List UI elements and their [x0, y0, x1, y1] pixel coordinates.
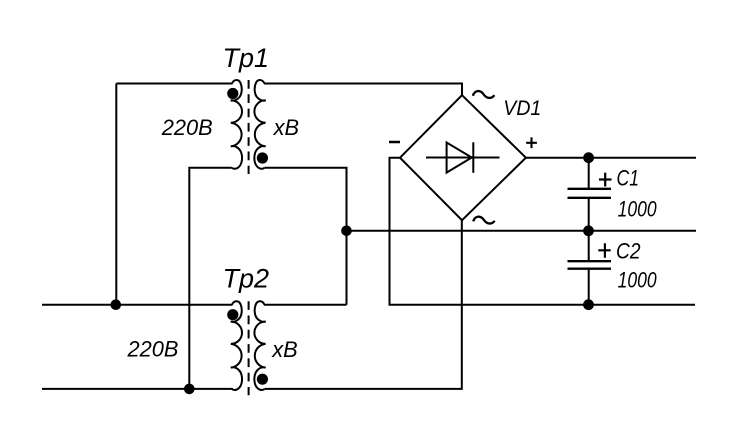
wire: Tp1 primary bottom lead to return vertical — [189, 168, 232, 389]
svg-text:C2: C2 — [616, 238, 641, 263]
capacitor C2 plates — [568, 260, 612, 262]
junction dot C1/C2 middle — [583, 225, 594, 236]
tilde top AC terminal — [473, 91, 495, 98]
wire: Tp2 secondary bottom to bridge bottom vertex — [265, 220, 462, 389]
phase dot Tp2 primary — [227, 309, 238, 320]
diode cathode bar — [472, 142, 474, 173]
minus sign at bridge output — [389, 141, 400, 144]
svg-text:1000: 1000 — [618, 196, 658, 221]
wire: Tp2 secondary top to center-tap vertical — [264, 304, 347, 306]
wire: middle rail from center tap — [347, 230, 697, 232]
wire: 220V input line 2 — [42, 388, 233, 390]
junction dot center tap — [341, 226, 352, 237]
wire: Tp1 primary top lead — [116, 83, 232, 85]
plus sign of C2 — [598, 243, 610, 258]
capacitor C1 lead to middle rail — [588, 199, 590, 231]
capacitor C1 lead from top rail — [588, 158, 590, 188]
plus sign at bridge output — [526, 137, 537, 148]
diode inside bridge: through line — [426, 157, 500, 159]
diode triangle — [447, 143, 472, 173]
svg-text:220В: 220В — [127, 337, 179, 362]
transformer Tp1 secondary winding — [254, 80, 265, 169]
wire: Tp1 secondary bottom to center-tap vertical — [265, 168, 347, 305]
svg-text:Tp1: Tp1 — [223, 43, 270, 73]
wire: Tp1 secondary top to bridge top vertex — [264, 84, 462, 96]
svg-text:1000: 1000 — [618, 268, 658, 293]
tilde bottom AC terminal — [473, 217, 495, 224]
transformer Tp1 primary winding — [231, 80, 242, 169]
wire: left vertical from Tp1 primary top down to input line 1 — [115, 84, 117, 305]
svg-text:C1: C1 — [617, 165, 640, 190]
junction dot C2 bottom — [583, 299, 594, 310]
wire: 220V input line 1 — [42, 304, 233, 306]
junction dot input line 1 — [111, 299, 122, 310]
plus sign of C1 — [599, 173, 612, 187]
bridge rectifier VD1 diamond — [400, 95, 526, 220]
phase dot Tp2 secondary — [257, 374, 268, 385]
svg-text:220В: 220В — [161, 115, 213, 140]
junction dot input line 2 — [184, 384, 195, 395]
wire: top output rail from bridge plus — [526, 157, 696, 159]
svg-text:Tp2: Tp2 — [223, 263, 270, 293]
capacitor C1 plates — [568, 188, 612, 190]
phase dot Tp1 secondary — [257, 152, 268, 163]
capacitor C2 lead from middle rail — [588, 231, 590, 260]
svg-text:хВ: хВ — [273, 115, 299, 140]
transformer Tp2 secondary winding — [254, 301, 265, 390]
junction dot C1 top — [583, 152, 594, 163]
capacitor C2 lead to bottom rail — [588, 270, 590, 305]
transformer Tp2 core (dashed) — [248, 301, 250, 395]
phase dot Tp1 primary — [227, 88, 238, 99]
svg-text:хВ: хВ — [271, 337, 297, 362]
svg-text:VD1: VD1 — [503, 96, 541, 120]
wire: bridge minus stub down to bottom rail — [390, 158, 696, 305]
transformer Tp1 core (dashed) — [248, 80, 250, 174]
transformer Tp2 primary winding — [231, 301, 242, 390]
